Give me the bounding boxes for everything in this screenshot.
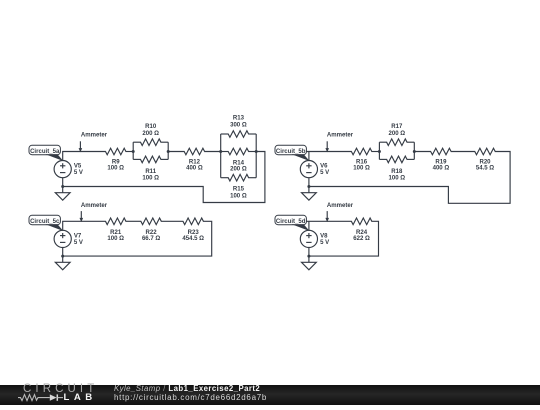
wire R15 left lead <box>221 177 229 179</box>
R16 value label <box>353 159 370 171</box>
wire V8 bottom stub <box>308 248 310 257</box>
svg-text:200 Ω: 200 Ω <box>142 131 159 137</box>
junction ground node 5c <box>61 255 64 258</box>
R23 value label <box>182 230 204 242</box>
R9 value label <box>107 159 124 171</box>
voltage source V8 <box>300 230 317 247</box>
resistor R9 <box>106 148 126 155</box>
svg-text:R12: R12 <box>189 159 201 165</box>
wire R14 left lead <box>221 151 229 153</box>
wire R10 top leads <box>133 141 141 143</box>
V6 value label <box>320 164 329 177</box>
wire R17 right lead <box>407 141 415 143</box>
junction node D <box>255 150 258 153</box>
resistor R20 <box>475 148 495 155</box>
resistor R10 <box>141 139 161 146</box>
svg-text:V6: V6 <box>320 164 328 170</box>
svg-text:454.5 Ω: 454.5 Ω <box>182 236 204 242</box>
V7 value label <box>74 233 83 246</box>
ammeter probe arrow <box>325 211 329 222</box>
resistor R14 <box>228 148 248 155</box>
svg-text:R17: R17 <box>391 124 403 130</box>
wire R14 right lead <box>248 151 256 153</box>
svg-text:200 Ω: 200 Ω <box>388 131 405 137</box>
resistor R15 <box>228 174 248 181</box>
svg-text:V8: V8 <box>320 233 328 239</box>
svg-text:5 V: 5 V <box>320 170 329 176</box>
R14 value label <box>230 160 247 172</box>
wire R17 left lead <box>379 141 387 143</box>
resistor R11 <box>141 156 161 163</box>
ammeter probe arrow <box>80 211 84 222</box>
resistor R23 <box>183 218 203 225</box>
wire V6 bottom stub <box>308 178 310 187</box>
svg-text:5 V: 5 V <box>74 170 83 176</box>
svg-text:400 Ω: 400 Ω <box>433 166 450 172</box>
voltage source V6 <box>300 161 317 178</box>
svg-text:400 Ω: 400 Ω <box>186 166 203 172</box>
wire node B to R12 <box>168 151 184 153</box>
junction node C <box>219 150 222 153</box>
wire R15 right lead <box>248 177 256 179</box>
footer url <box>114 394 267 403</box>
node C bracket <box>220 134 222 178</box>
junction ground node 5a <box>61 185 64 188</box>
svg-text:100 Ω: 100 Ω <box>353 166 370 172</box>
svg-text:R24: R24 <box>356 230 368 236</box>
label Circuit_5c <box>29 215 60 225</box>
node E bracket <box>378 142 380 159</box>
R21 value label <box>107 230 124 242</box>
svg-text:5 V: 5 V <box>320 240 329 246</box>
svg-text:V5: V5 <box>74 164 82 170</box>
wire V5 bottom stub <box>62 178 64 187</box>
R13 value label <box>230 116 247 129</box>
resistor R24 <box>351 218 371 225</box>
R18 value label <box>388 169 405 182</box>
ground <box>302 256 317 270</box>
ammeter probe arrow <box>325 141 329 152</box>
R24 value label <box>353 230 370 242</box>
svg-text:5 V: 5 V <box>74 240 83 246</box>
voltage source V5 <box>54 161 71 178</box>
label Circuit_5b <box>275 145 306 155</box>
wire V6 top stub <box>308 152 310 161</box>
V5 value label <box>74 164 83 177</box>
svg-text:R18: R18 <box>391 169 403 175</box>
wire V7 bottom stub <box>62 248 64 257</box>
wire V8 top stub <box>308 221 310 230</box>
svg-text:100 Ω: 100 Ω <box>230 193 247 199</box>
svg-text:R19: R19 <box>435 159 447 165</box>
svg-text:R15: R15 <box>233 187 245 193</box>
svg-text:V7: V7 <box>74 233 82 239</box>
R19 value label <box>433 159 450 171</box>
svg-text:66.7 Ω: 66.7 Ω <box>142 236 160 242</box>
label pointer <box>292 224 310 231</box>
wire R19 to R20 <box>451 151 476 153</box>
resistor R16 <box>351 148 371 155</box>
svg-text:Ammeter: Ammeter <box>81 133 108 139</box>
label pointer <box>46 154 64 161</box>
svg-text:100 Ω: 100 Ω <box>107 166 124 172</box>
svg-text:R16: R16 <box>356 159 368 165</box>
resistor R12 <box>184 148 204 155</box>
svg-text:R20: R20 <box>479 159 491 165</box>
svg-text:Ammeter: Ammeter <box>327 203 354 209</box>
resistor R21 <box>106 218 126 225</box>
Ammeter label <box>81 133 108 139</box>
svg-text:100 Ω: 100 Ω <box>142 176 159 182</box>
R12 value label <box>186 159 203 171</box>
wire return loop 5d <box>309 221 379 256</box>
label pointer <box>292 154 310 161</box>
wire R10 right lead <box>161 141 169 143</box>
wire V7 top stub <box>63 221 106 230</box>
ground <box>55 187 70 201</box>
wire return loop 5c <box>63 221 212 256</box>
node F bracket <box>413 142 415 159</box>
V8 value label <box>320 233 329 246</box>
junction ground node 5b <box>307 185 310 188</box>
wire label to R24 <box>307 220 352 222</box>
wire R12 to node C <box>204 151 221 153</box>
wire R18 left lead <box>379 158 387 160</box>
R10 value label <box>142 124 159 137</box>
Ammeter label <box>327 203 354 209</box>
wire R18 right lead <box>407 158 415 160</box>
wire R21 to R22 <box>126 220 142 222</box>
logo LAB <box>64 393 97 403</box>
wire R22 to R23 <box>161 220 184 222</box>
svg-text:R11: R11 <box>145 169 156 175</box>
svg-text:R14: R14 <box>233 160 245 166</box>
wire R13 left lead <box>221 133 229 135</box>
resistor R13 <box>228 131 248 138</box>
R22 value label <box>142 230 160 242</box>
svg-text:200 Ω: 200 Ω <box>230 167 247 173</box>
wire node F to R19 <box>414 151 431 153</box>
label Circuit_5d <box>275 215 306 225</box>
svg-text:R9: R9 <box>112 159 120 165</box>
ground <box>302 187 317 201</box>
CircuitLab logo symbol (resistor + diode) <box>17 393 67 403</box>
junction node A <box>132 150 135 153</box>
Ammeter label <box>81 203 108 209</box>
junction ground node 5d <box>307 255 310 258</box>
svg-text:R10: R10 <box>145 124 157 130</box>
label Circuit_5a <box>29 145 60 155</box>
svg-text:R22: R22 <box>146 230 158 236</box>
node D bracket <box>255 134 257 178</box>
wire R11 right lead <box>161 158 169 160</box>
svg-text:54.5 Ω: 54.5 Ω <box>476 166 494 172</box>
svg-text:300 Ω: 300 Ω <box>230 122 247 128</box>
junction node B <box>167 150 170 153</box>
junction node F <box>413 150 416 153</box>
wire return loop 5a <box>63 152 265 203</box>
resistor R22 <box>141 218 161 225</box>
wire R13 right lead <box>248 133 256 135</box>
svg-text:100 Ω: 100 Ω <box>388 176 405 182</box>
svg-text:Ammeter: Ammeter <box>81 203 108 209</box>
wire V5 top stub <box>63 152 106 161</box>
svg-text:622 Ω: 622 Ω <box>353 236 370 242</box>
node B bracket <box>167 142 169 159</box>
resistor R19 <box>431 148 451 155</box>
wire R9 to R10/R11 node <box>126 151 134 153</box>
footer bar <box>0 385 540 405</box>
wire return loop 5b <box>309 152 510 204</box>
svg-text:Ammeter: Ammeter <box>327 133 354 139</box>
R15 value label <box>230 187 247 200</box>
wire R11 left lead <box>133 158 141 160</box>
R20 value label <box>476 159 494 171</box>
R17 value label <box>388 124 405 137</box>
R11 value label <box>142 169 159 182</box>
resistor R18 <box>387 156 407 163</box>
wire label to R16 <box>307 151 352 153</box>
ground <box>55 256 70 270</box>
svg-text:100 Ω: 100 Ω <box>107 236 124 242</box>
svg-text:R21: R21 <box>110 230 122 236</box>
wire R16 to node E <box>371 151 379 153</box>
CircuitLab logo text <box>23 384 98 396</box>
footer title <box>114 385 260 394</box>
label pointer <box>46 224 64 231</box>
junction node E <box>378 150 381 153</box>
ammeter probe arrow <box>79 141 83 152</box>
svg-text:R13: R13 <box>233 116 245 122</box>
voltage source V7 <box>54 230 71 247</box>
resistor R17 <box>387 139 407 146</box>
Ammeter label <box>327 133 354 139</box>
node A bracket <box>132 142 134 159</box>
svg-text:R23: R23 <box>188 230 200 236</box>
